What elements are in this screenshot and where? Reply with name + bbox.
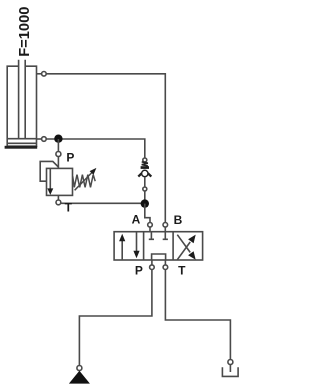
wire: cylinder bottom to check valve branch (46, 139, 145, 158)
relief valve internal arrow (49, 168, 51, 189)
check valve seat bar (141, 166, 149, 169)
relief valve spring (73, 175, 96, 188)
wire: check valve to junction J2 (144, 191, 146, 203)
svg-text:F=1000: F=1000 (17, 7, 33, 57)
port circle A (148, 223, 153, 228)
check valve bottom port (143, 187, 147, 191)
relief valve V1 body (47, 168, 73, 195)
valve position dividers (144, 232, 174, 260)
tank stub (229, 365, 231, 373)
center box P-T connection (152, 254, 166, 260)
center box blocked A stub (149, 232, 154, 240)
directional valve DV1 outline (114, 232, 203, 260)
right box crossed arrow 1 (177, 242, 190, 260)
cylinder C1 body (7, 66, 36, 146)
left box up arrow (121, 239, 123, 259)
check valve seat wings (138, 173, 151, 176)
check valve ball (142, 170, 148, 176)
cylinder piston (7, 139, 36, 144)
port circle P (150, 265, 155, 270)
port circle P of relief valve (56, 152, 61, 157)
svg-text:P: P (135, 263, 143, 277)
right box crossed arrow 2 (177, 235, 190, 253)
pump port circle (77, 366, 82, 371)
tank port circle (228, 360, 233, 365)
port circle T (163, 265, 168, 270)
stub T below valve (164, 260, 166, 265)
check valve spring (142, 162, 148, 166)
check valve CV1: top port (143, 158, 147, 162)
svg-text:P: P (66, 150, 74, 164)
port: cylinder top port (37, 73, 42, 75)
junction J1 (54, 135, 62, 143)
svg-text:T: T (65, 200, 73, 214)
left box down arrow (136, 232, 138, 253)
svg-text:B: B (174, 213, 183, 227)
wire: T to tank (165, 270, 230, 360)
tank T1 (222, 367, 238, 376)
svg-text:A: A (132, 212, 141, 226)
wire: relief valve T to junction J2 (58, 195, 144, 203)
wire: P to pump (79, 270, 151, 366)
wire: P port into relief valve (57, 157, 59, 169)
junction J2 (141, 199, 149, 207)
stub B to valve (164, 227, 166, 232)
port: cylinder bottom port (37, 138, 42, 140)
pump pressure source triangle (69, 371, 90, 384)
wire: ball to bottom port (144, 177, 146, 187)
wire: junction to relief valve P (57, 139, 59, 152)
port circle T of relief valve (56, 200, 61, 205)
relief valve adjustment arrow (75, 172, 93, 191)
center box blocked B stub (163, 232, 168, 240)
svg-text:T: T (178, 263, 186, 277)
stub P below valve (151, 260, 153, 265)
wire: junction J2 to valve port A (145, 204, 150, 223)
port circle B (163, 223, 168, 228)
pilot line of relief valve V1 (40, 161, 58, 181)
cylinder bottom cap (5, 146, 38, 149)
wire: cylinder top to valve B (46, 74, 165, 223)
cylinder rod (19, 60, 26, 139)
stub A to valve (149, 227, 151, 232)
